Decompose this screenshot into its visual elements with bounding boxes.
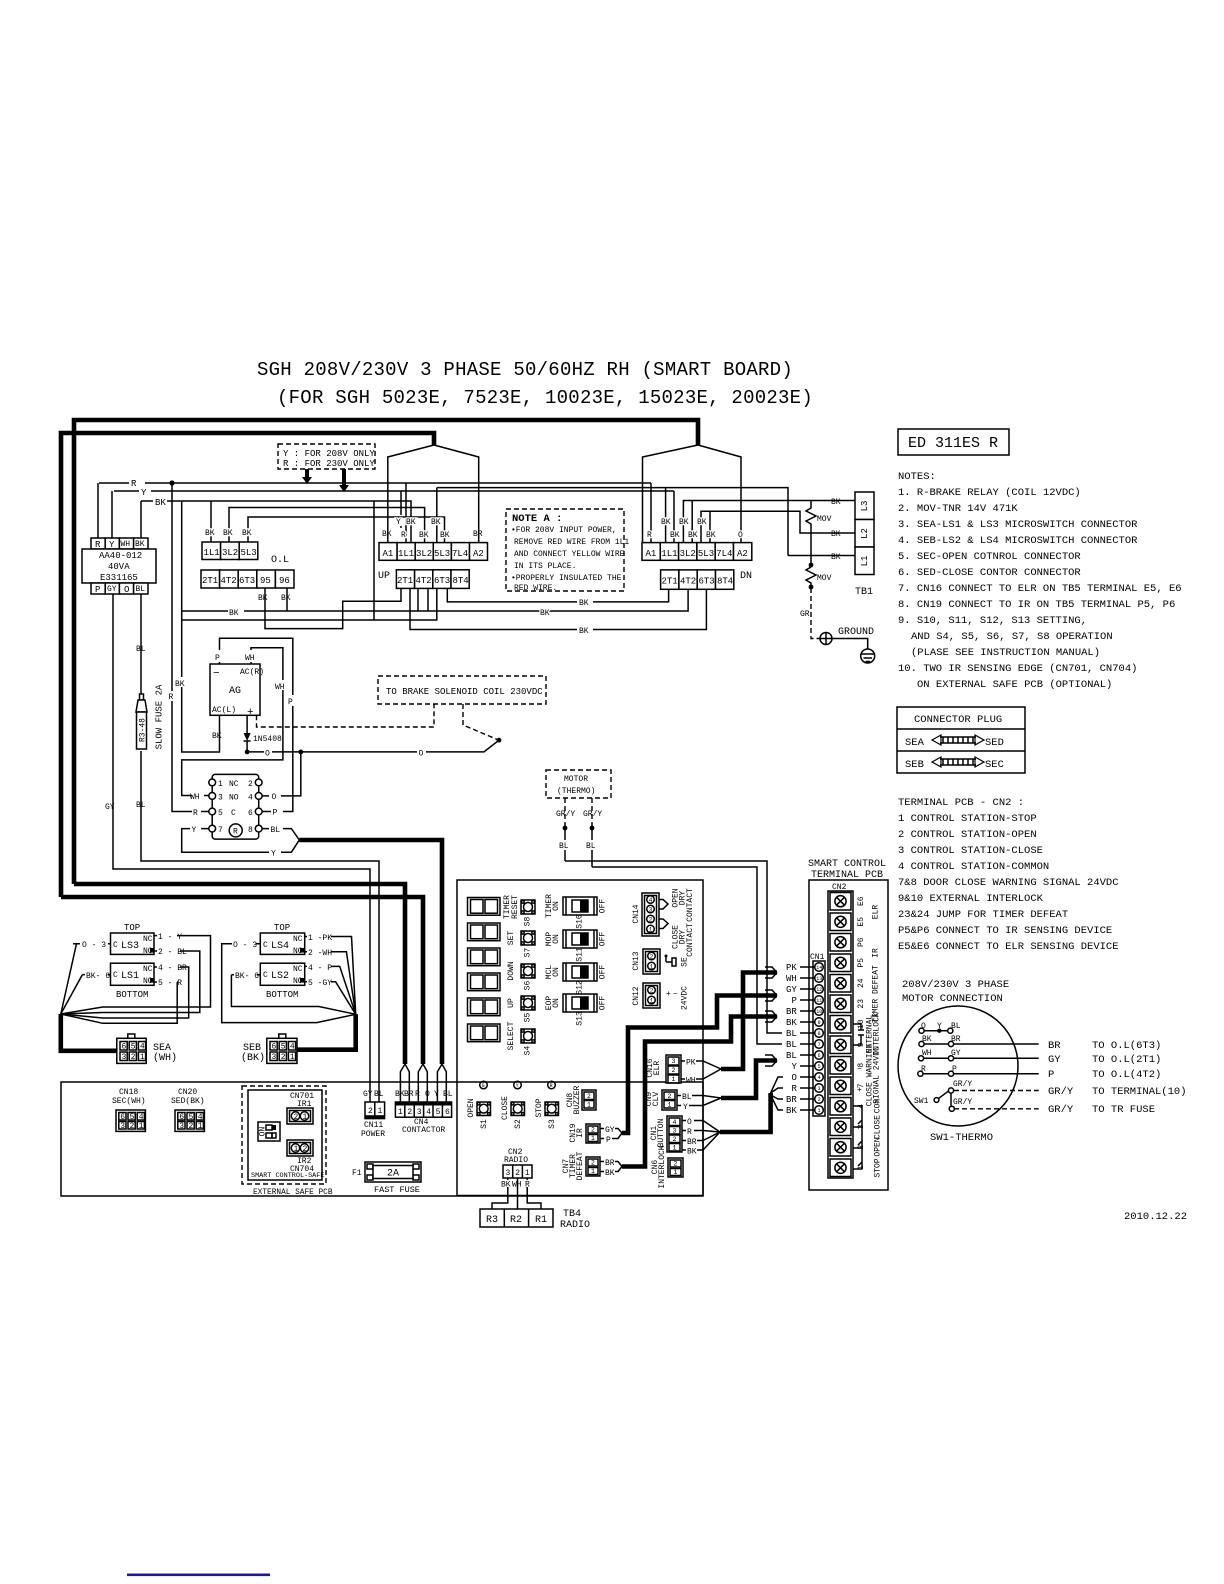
thick wire CN1 BUTTON to terminal strip [720, 1093, 771, 1132]
svg-text:MOTOR CONNECTION: MOTOR CONNECTION [902, 993, 1003, 1005]
svg-text:1L1: 1L1 [661, 549, 677, 559]
motor thermo box [546, 770, 611, 798]
svg-text:TO O.L(4T2): TO O.L(4T2) [1092, 1069, 1161, 1081]
wire BK O.L 3L2 to UP 3L2 [229, 508, 425, 543]
svg-text:ELR: ELR [872, 905, 881, 920]
wire relay Y loop [182, 829, 300, 853]
svg-text:R: R [169, 693, 174, 702]
svg-text:E331165: E331165 [100, 573, 138, 583]
svg-text:CN13: CN13 [632, 951, 641, 970]
svg-text:SLOW FUSE 2A: SLOW FUSE 2A [155, 684, 165, 749]
wire ground to earth [832, 639, 868, 650]
transformer T1 top terminals [91, 538, 148, 550]
svg-text:SMART CONTROL-SAFE: SMART CONTROL-SAFE [251, 1172, 324, 1180]
svg-text:SE: SE [681, 957, 690, 967]
svg-text:NO: NO [229, 794, 239, 803]
svg-text:A1: A1 [646, 549, 657, 559]
svg-text:1N5408: 1N5408 [253, 735, 282, 744]
motor row R P [918, 1065, 1162, 1081]
svg-text:GR/Y: GR/Y [556, 810, 575, 819]
svg-text:P: P [288, 698, 293, 707]
terminal block TB1 [855, 492, 874, 598]
wire R bus [99, 482, 651, 484]
svg-text:FAST FUSE: FAST FUSE [374, 1185, 420, 1195]
brake solenoid note box [378, 676, 546, 704]
svg-text:BL: BL [786, 1029, 797, 1039]
connector CN2 RADIO [501, 1148, 532, 1190]
svg-text:SELECT: SELECT [507, 1021, 516, 1050]
svg-text:1: 1 [674, 1169, 678, 1176]
svg-text:S3: S3 [548, 1119, 557, 1129]
svg-text:4: 4 [673, 1119, 677, 1126]
svg-text:3: 3 [673, 1128, 677, 1135]
svg-text:2: 2 [294, 1113, 299, 1122]
svg-text:CONNECTOR PLUG: CONNECTOR PLUG [914, 714, 1002, 726]
connector CN12 [632, 983, 660, 1008]
svg-text:1: 1 [818, 1108, 821, 1114]
svg-text:O: O [687, 1118, 692, 1127]
svg-text:24: 24 [857, 978, 866, 988]
svg-text:G: G [482, 1083, 485, 1089]
svg-text:BK: BK [229, 609, 239, 618]
svg-text:6T3: 6T3 [699, 577, 715, 587]
svg-text:(WH): (WH) [153, 1052, 177, 1064]
wire Y bus drop to DN 1L1 [673, 491, 675, 542]
svg-text:R: R [687, 1128, 692, 1137]
svg-text:L2: L2 [860, 528, 870, 539]
svg-text:TERMINAL PCB - CN2 :: TERMINAL PCB - CN2 : [898, 797, 1024, 809]
svg-text:LS4: LS4 [271, 941, 289, 952]
svg-text:1: 1 [673, 1145, 677, 1152]
connector CN14 [632, 893, 659, 936]
svg-text:BK: BK [706, 531, 716, 540]
wire LS2 pin5 GY [305, 982, 356, 1015]
svg-text:R3: R3 [486, 1215, 498, 1226]
svg-text:GY: GY [1048, 1054, 1061, 1066]
node brake junction [497, 738, 502, 743]
node MOV junction L1 [809, 563, 814, 568]
wire phase TB1 L1 long [788, 555, 846, 557]
svg-text:2T1: 2T1 [202, 576, 218, 586]
svg-text:TB1: TB1 [855, 587, 873, 598]
svg-text:4: 4 [649, 897, 653, 904]
thick wire CN19 to CN1 GY P [622, 996, 777, 1134]
svg-text:BK: BK [697, 518, 707, 527]
svg-text:Y: Y [396, 518, 401, 527]
svg-text:AND S4, S5, S6, S7, S8 OPERATI: AND S4, S5, S6, S7, S8 OPERATION [911, 631, 1113, 643]
wire O line to brake [247, 740, 499, 752]
svg-text:BK: BK [242, 529, 252, 538]
svg-text:NOTES:: NOTES: [898, 471, 936, 483]
svg-text:S12: S12 [576, 980, 585, 995]
svg-text:BUTTON: BUTTON [657, 1118, 666, 1147]
svg-text:P: P [1048, 1069, 1054, 1081]
rocker DIP display 5 [468, 998, 501, 1016]
svg-text:2: 2 [674, 1161, 678, 1168]
svg-text:TOP: TOP [274, 923, 290, 933]
svg-text:2: 2 [591, 1160, 595, 1167]
wire phase TB1 L3 to DN 3L2 [683, 501, 846, 543]
svg-text:REMOVE RED WIRE FROM 1L1: REMOVE RED WIRE FROM 1L1 [514, 538, 629, 547]
svg-text:TOP: TOP [124, 923, 140, 933]
svg-text:OFF: OFF [599, 932, 608, 947]
svg-text:MOV: MOV [817, 515, 832, 524]
svg-text:ON: ON [552, 901, 561, 911]
svg-text:2 CONTROL STATION-OPEN: 2 CONTROL STATION-OPEN [898, 829, 1037, 841]
svg-text:1: 1 [294, 1145, 299, 1154]
svg-text:R: R [415, 1090, 420, 1099]
svg-text:2: 2 [248, 780, 253, 789]
svg-text:BK: BK [419, 531, 429, 540]
svg-text:5 - R: 5 - R [158, 979, 182, 988]
svg-text:S7: S7 [524, 948, 533, 958]
svg-text:6: 6 [248, 809, 253, 818]
svg-text:RADIO: RADIO [504, 1156, 528, 1165]
svg-text:GR/Y: GR/Y [1048, 1086, 1074, 1098]
svg-text:Y: Y [271, 850, 276, 859]
svg-text:CONTACT: CONTACT [686, 888, 695, 922]
svg-text:R1: R1 [535, 1215, 547, 1226]
svg-text:Y: Y [434, 1090, 439, 1099]
LED R indicator [548, 1081, 556, 1089]
smart control-safe board [248, 1090, 324, 1180]
svg-text:E5: E5 [857, 917, 866, 927]
thick wire relay to CN4 Y/BL [299, 840, 442, 1064]
node O junction [298, 750, 303, 755]
svg-text:R3-48: R3-48 [138, 718, 147, 742]
svg-text:CN11: CN11 [364, 1121, 383, 1130]
svg-text:3: 3 [122, 1053, 127, 1062]
svg-text:3: 3 [672, 1058, 676, 1065]
connector CN9 CLV [645, 1090, 721, 1112]
thick cable SEB [297, 1014, 356, 1049]
connector CN18 SEC(WH) [112, 1088, 146, 1131]
svg-text:2: 2 [591, 1127, 595, 1134]
svg-text:3: 3 [417, 1108, 422, 1117]
svg-text:RADIO: RADIO [560, 1220, 590, 1231]
fuse F1 FAST FUSE [352, 1162, 421, 1195]
connector plug table [897, 707, 1025, 773]
svg-text:P: P [273, 809, 278, 818]
svg-text:3L2: 3L2 [416, 549, 432, 559]
button S4 SELECT [507, 1021, 535, 1055]
svg-text:CLV: CLV [652, 1092, 661, 1107]
svg-text:7. CN16 CONNECT TO ELR ON TB5: 7. CN16 CONNECT TO ELR ON TB5 TERMINAL E… [898, 583, 1182, 595]
svg-text:5: 5 [281, 1043, 286, 1052]
svg-text:BK: BK [687, 1148, 697, 1157]
svg-text:NC: NC [293, 965, 303, 974]
svg-text:4: 4 [248, 794, 253, 803]
connector CN4 CONTACTOR [395, 1102, 451, 1135]
svg-text:2: 2 [130, 1122, 135, 1131]
svg-text:GY: GY [786, 985, 797, 995]
contactor UP coil A1 A2 funnel [388, 445, 479, 542]
contactor DN bottom row [661, 570, 752, 589]
svg-text:BL: BL [443, 1090, 453, 1099]
svg-text:4T2: 4T2 [680, 577, 696, 587]
svg-text:8T4: 8T4 [453, 576, 469, 586]
connector CN7 TIMER DEFEAT [562, 1151, 622, 1180]
svg-text:O: O [425, 1090, 430, 1099]
connector CN1 strip [810, 953, 825, 1116]
svg-text:RED WIRE.: RED WIRE. [514, 584, 557, 593]
svg-text:R: R [131, 479, 137, 489]
svg-text:SW1: SW1 [914, 1097, 929, 1106]
svg-text:8: 8 [818, 1031, 821, 1037]
relay pins row 3 NO 4 [209, 793, 262, 803]
svg-text:13: 13 [816, 976, 822, 982]
svg-text:O - 3: O - 3 [82, 941, 106, 950]
svg-text:2: 2 [649, 916, 653, 923]
rocker DIP display 2 [468, 923, 501, 941]
svg-text:BK: BK [175, 680, 185, 689]
svg-text:ED 311ES R: ED 311ES R [908, 435, 998, 452]
svg-text:R: R [550, 1083, 553, 1089]
svg-text:4: 4 [140, 1043, 145, 1052]
svg-text:SEA: SEA [905, 737, 925, 749]
svg-text:7: 7 [218, 826, 223, 835]
svg-text:MOV: MOV [817, 574, 832, 583]
svg-text:GR/Y: GR/Y [953, 1098, 972, 1107]
svg-text:9: 9 [818, 1020, 821, 1026]
svg-text:C: C [113, 971, 118, 980]
svg-text:PK: PK [786, 963, 797, 973]
wire motor BL to CN1 pin8 [565, 861, 782, 1033]
svg-text:1 - Y: 1 - Y [158, 933, 182, 942]
svg-text:Y : FOR 208V ONLY: Y : FOR 208V ONLY [283, 449, 375, 459]
svg-text:GR: GR [800, 610, 810, 619]
svg-text:7&8 DOOR CLOSE WARNING SIGNAL: 7&8 DOOR CLOSE WARNING SIGNAL 24VDC [898, 877, 1119, 889]
svg-text:OFF: OFF [599, 996, 608, 1011]
svg-text:SGH 208V/230V 3 PHASE 50/60HZ: SGH 208V/230V 3 PHASE 50/60HZ RH (SMART … [257, 359, 793, 381]
svg-text:3L2: 3L2 [222, 548, 238, 558]
svg-text:BL: BL [786, 1051, 797, 1061]
svg-text:BK: BK [223, 529, 233, 538]
connector CN19 IR [569, 1123, 622, 1145]
svg-text:2: 2 [650, 953, 654, 960]
svg-text:3: 3 [120, 1122, 125, 1131]
svg-text:P5: P5 [857, 958, 866, 968]
svg-text:(BK): (BK) [241, 1052, 265, 1064]
svg-text:CONTACT: CONTACT [686, 923, 695, 957]
svg-text:BK: BK [786, 1106, 797, 1116]
transformer T1 body AA40-012 [82, 549, 156, 583]
svg-text:BOTTOM: BOTTOM [266, 990, 298, 1000]
svg-text:1: 1 [303, 1113, 308, 1122]
svg-text:P: P [792, 996, 797, 1006]
svg-text:S11: S11 [576, 947, 585, 962]
motor connection circle [898, 1006, 1018, 1126]
svg-text:9. S10, S11, S12, S13 SETTING,: 9. S10, S11, S12, S13 SETTING, [898, 615, 1087, 627]
svg-text:6: 6 [179, 1113, 184, 1122]
motor row WH GY [918, 1049, 1161, 1066]
wire GR dashed to ground [811, 588, 820, 639]
jumper station switches [853, 1106, 862, 1169]
svg-text:1: 1 [672, 1076, 676, 1083]
svg-text:SED: SED [985, 737, 1004, 749]
svg-text:1. R-BRAKE RELAY (COIL 12VDC): 1. R-BRAKE RELAY (COIL 12VDC) [898, 487, 1081, 499]
svg-text:BOTTOM: BOTTOM [116, 990, 148, 1000]
wire TB1 BK stubs [846, 501, 855, 556]
contactor DN coil funnel [643, 445, 742, 542]
svg-text:SMART CONTROL: SMART CONTROL [808, 859, 886, 870]
svg-text:BK: BK [688, 531, 698, 540]
connector CN20 SED(BK) [171, 1088, 205, 1131]
wire LS1 pin5 R wrap [61, 982, 177, 1023]
svg-text:SIGNAL 24VDC: SIGNAL 24VDC [873, 1046, 882, 1104]
svg-text:CLOSE: CLOSE [501, 1096, 510, 1120]
svg-text:O: O [265, 750, 270, 759]
svg-text:1L1: 1L1 [398, 549, 414, 559]
svg-text:BK: BK [406, 518, 416, 527]
contactor DN top row [642, 543, 752, 561]
svg-text:2 -WH: 2 -WH [308, 949, 332, 958]
svg-text:−: − [213, 668, 220, 680]
svg-text:BR: BR [786, 1007, 797, 1017]
svg-text:SEC(WH): SEC(WH) [112, 1097, 146, 1106]
relay pins row 5 C 6 [209, 808, 262, 818]
svg-text:P: P [95, 585, 100, 595]
svg-text:UP: UP [507, 998, 516, 1008]
plug arrow symbol row1 [932, 735, 984, 745]
svg-text:OPEN: OPEN [874, 1137, 883, 1156]
svg-text:TO O.L(6T3): TO O.L(6T3) [1092, 1040, 1161, 1052]
svg-text:LS1: LS1 [121, 971, 139, 982]
svg-text:9&10 EXTERNAL INTERLOCK: 9&10 EXTERNAL INTERLOCK [898, 893, 1044, 905]
svg-text:2: 2 [281, 1053, 286, 1062]
hook CN1 BL Y [765, 1055, 777, 1066]
svg-text:R: R [233, 828, 238, 837]
svg-text:BL: BL [136, 801, 146, 810]
external safe PCB dashed outline [242, 1086, 326, 1184]
svg-text:O: O [272, 793, 277, 802]
relay pins row 1 NC 2 [209, 779, 262, 789]
svg-text:6. SED-CLOSE CONTOR CONNECTOR: 6. SED-CLOSE CONTOR CONNECTOR [898, 567, 1081, 579]
svg-text:2T1: 2T1 [397, 576, 413, 586]
transformer T1 bottom terminals [91, 583, 148, 595]
bottom margin line [127, 1574, 270, 1577]
wire Y bus [114, 490, 674, 492]
svg-text:ON EXTERNAL SAFE PCB (OPTIONAL: ON EXTERNAL SAFE PCB (OPTIONAL) [917, 679, 1112, 691]
svg-text:3: 3 [179, 1122, 184, 1131]
svg-text:BK: BK [382, 530, 392, 539]
svg-text:INTERLOCK: INTERLOCK [658, 1145, 667, 1188]
svg-text:L1: L1 [860, 556, 870, 567]
svg-text:1: 1 [668, 1102, 672, 1109]
svg-text:2: 2 [587, 1093, 591, 1100]
svg-text:3: 3 [818, 1086, 821, 1092]
svg-text:S4: S4 [524, 1046, 533, 1056]
svg-text:GY: GY [363, 1090, 373, 1099]
svg-text:BL: BL [586, 842, 596, 851]
svg-text:(THERMO): (THERMO) [557, 787, 595, 796]
wire relay BL to thick [262, 829, 299, 840]
svg-text:2: 2 [368, 1107, 373, 1116]
thick wire CN9 to CN1 BL Y [721, 1061, 777, 1099]
svg-text:BK: BK [831, 553, 841, 562]
svg-text:4: 4 [139, 1113, 144, 1122]
svg-text:3: 3 [272, 1053, 277, 1062]
LED Y indicator [514, 1081, 522, 1089]
wire LS1 pin4 BR wrap [61, 967, 189, 1018]
svg-text:GR/Y: GR/Y [953, 1080, 972, 1089]
svg-text:1: 1 [587, 1102, 591, 1109]
svg-text:WH: WH [275, 683, 285, 692]
svg-text:BK: BK [679, 518, 689, 527]
svg-text:2: 2 [515, 1169, 520, 1178]
svg-text:BK: BK [579, 599, 589, 608]
svg-text:S8: S8 [524, 917, 533, 927]
svg-text:4 CONTROL STATION-COMMON: 4 CONTROL STATION-COMMON [898, 861, 1049, 873]
svg-text:CN14: CN14 [632, 904, 641, 923]
svg-text:1: 1 [398, 1108, 403, 1117]
slide switch S12 MCL [545, 963, 608, 995]
svg-text:3. SEA-LS1 & LS3 MICROSWITCH C: 3. SEA-LS1 & LS3 MICROSWITCH CONNECTOR [898, 519, 1138, 531]
wire LS1 C lead BK-6 [61, 975, 111, 1014]
svg-text:GY: GY [605, 1126, 615, 1135]
svg-text:E6: E6 [857, 896, 866, 906]
svg-text:BR: BR [605, 1159, 615, 1168]
bracket CN14 open dry contact [659, 900, 668, 910]
funnel CN4 BK BR pair [400, 1064, 409, 1102]
rocker DIP display 6 [468, 1024, 501, 1042]
svg-text:3L2: 3L2 [680, 549, 696, 559]
funnel CN4 Y BL pair [437, 1064, 446, 1102]
svg-text:AG: AG [229, 686, 241, 697]
rectifier AG WH loop [182, 648, 283, 796]
svg-text:+: + [857, 1086, 862, 1095]
plug arrow symbol row2 [932, 757, 984, 767]
svg-text:O: O [419, 750, 424, 759]
fuse F slow blow R3-48 [136, 694, 147, 749]
svg-text:GR/Y: GR/Y [583, 810, 602, 819]
thick cable SEA [61, 1014, 117, 1051]
svg-text:GY: GY [107, 585, 117, 594]
svg-text:SEB: SEB [905, 759, 924, 771]
svg-text:5: 5 [189, 1113, 194, 1122]
overload relay O.L contact block top row [202, 542, 289, 566]
motor row GR/Y tr fuse [949, 1098, 1155, 1116]
svg-text:14: 14 [816, 965, 822, 971]
svg-text:1L1: 1L1 [204, 548, 220, 558]
svg-text:BK: BK [605, 1169, 615, 1178]
diode 1N5408 [244, 715, 283, 752]
button S3 STOP [535, 1098, 559, 1129]
svg-text:1 CONTROL STATION-STOP: 1 CONTROL STATION-STOP [898, 813, 1037, 825]
svg-text:IR: IR [872, 948, 881, 958]
wire LS3 C lead O-3 [61, 944, 111, 1014]
svg-text:8: 8 [248, 826, 253, 835]
svg-text:O: O [124, 585, 129, 595]
wire UP 2T1 right to DN 6T3 [410, 588, 706, 629]
slide switch S13 EOP [545, 994, 608, 1026]
wire labels into CN1 [800, 966, 815, 968]
bottom components box [61, 1082, 703, 1196]
relay R socket body [212, 774, 259, 839]
wire motor thermo right lead [591, 798, 593, 823]
svg-text:AC(R): AC(R) [240, 668, 264, 677]
svg-text:5L3: 5L3 [698, 549, 714, 559]
svg-text:4T2: 4T2 [416, 576, 432, 586]
svg-text:BL: BL [136, 645, 146, 654]
svg-text:TO TR FUSE: TO TR FUSE [1092, 1104, 1155, 1116]
svg-text:6: 6 [272, 1043, 277, 1052]
svg-text:C: C [263, 971, 268, 980]
svg-text:BK: BK [670, 531, 680, 540]
svg-text:STOP: STOP [874, 1158, 883, 1177]
svg-text:BR: BR [1048, 1040, 1061, 1052]
svg-text:2: 2 [650, 987, 654, 994]
